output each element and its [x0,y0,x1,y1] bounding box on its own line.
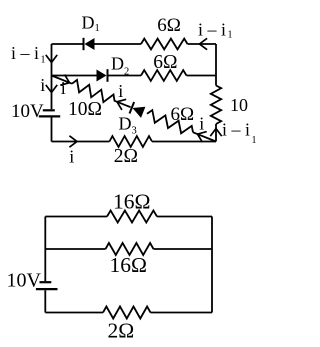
wire: diagonal end to corner [193,132,216,141]
svg-text:6Ω: 6Ω [153,52,177,73]
battery V1 long plate [39,115,60,117]
resistor 6ohm diagonal [147,110,193,133]
diode D3 (points up-left along diagonal) [130,102,146,118]
svg-text:i: i [118,81,123,101]
diode D1 (points left) [84,38,95,50]
wire: top side of lower loop [45,216,107,218]
svg-text:i: i [199,113,204,133]
svg-text:10V: 10V [7,270,42,292]
wire: left vertical of upper loop [51,44,53,109]
wire: middle branch [45,248,105,250]
diode D2 (points right) [97,69,108,82]
battery V2 long plate [36,288,58,290]
svg-text:2Ω: 2Ω [108,319,135,343]
resistor 2ohm lower circuit [103,307,151,319]
svg-text:16Ω: 16Ω [113,189,150,213]
current arrow i up-left near corner [198,132,207,143]
resistor 6ohm second row [141,70,187,81]
svg-text:10Ω: 10Ω [68,99,102,120]
svg-text:10: 10 [230,95,248,115]
wire: right vertical of upper loop [215,44,217,86]
svg-text:i: i [61,78,66,98]
current arrow i up-left on diagonal [117,99,126,110]
svg-text:16Ω: 16Ω [110,253,147,277]
wire: top side of upper loop [52,43,84,45]
wire below battery [51,118,53,142]
wire [187,75,217,77]
svg-text:i: i [40,75,45,95]
wire [154,248,213,250]
svg-text:6Ω: 6Ω [171,104,195,125]
wire [108,75,142,77]
svg-text:i – i1: i – i1 [11,43,46,66]
wire [114,101,131,108]
battery V2 short plate [40,281,52,283]
battery V1 short plate [43,109,55,111]
current arrow down i-i1 [46,55,57,63]
current arrow i down-right on diagonal [60,75,69,86]
resistor 16ohm middle branch [106,243,154,255]
svg-text:i – i1: i – i1 [222,120,257,147]
wire [157,216,212,218]
wire: second row [52,75,97,77]
wire: diagonal branch start [52,76,73,84]
wire: right vertical of lower loop [211,217,213,313]
svg-text:D1: D1 [82,13,100,34]
wire [95,43,142,45]
current arrow up i-i1 [210,129,221,137]
wire [152,141,216,143]
svg-text:i – i1: i – i1 [198,19,233,40]
svg-text:6Ω: 6Ω [157,15,181,36]
current arrow left on top wire [200,38,208,49]
wire below resistor 10 [215,124,217,142]
wire: bottom side of upper loop [52,141,110,143]
resistor 6ohm top row [141,39,188,50]
resistor 10 right vertical [211,86,221,125]
current arrow down i [46,85,57,93]
wire below battery [44,290,46,312]
svg-text:10V: 10V [11,101,44,122]
svg-text:D3: D3 [119,114,137,137]
current arrow right i [69,136,77,147]
resistor 16ohm top branch [107,211,157,223]
wire: bottom side of lower loop [45,312,103,314]
svg-text:2Ω: 2Ω [114,146,138,167]
svg-text:i: i [69,146,74,166]
resistor 2ohm upper circuit [109,136,152,147]
wire: left vertical of lower loop [44,217,46,282]
resistor 10ohm diagonal [72,80,115,102]
svg-text:D2: D2 [111,54,129,78]
wire [151,312,213,314]
wire [188,43,217,45]
